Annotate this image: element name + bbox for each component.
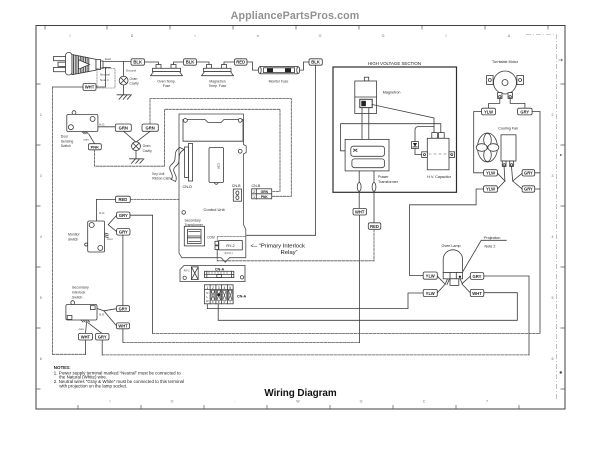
svg-text:N.O.: N.O. xyxy=(99,122,105,126)
ground tap wire xyxy=(123,62,125,77)
svg-text:W: W xyxy=(206,299,209,303)
svg-text:Door: Door xyxy=(61,135,69,139)
svg-text:Fuse: Fuse xyxy=(163,84,171,88)
oven temp fuse F1 xyxy=(151,65,183,76)
svg-text:WHT: WHT xyxy=(118,324,128,329)
wire: transformer primary leads xyxy=(359,171,374,223)
wire label WHT (interlock) xyxy=(117,323,130,329)
svg-text:O: O xyxy=(382,34,385,38)
wire label GRY (fan upper) xyxy=(522,170,535,176)
wire: fan YLW to oven lamp xyxy=(410,189,484,276)
wire: plug cord hot line xyxy=(103,60,131,62)
svg-text:W: W xyxy=(296,400,300,404)
wire label GRY (monitor 2) xyxy=(117,229,130,236)
svg-text:R: R xyxy=(224,301,226,304)
wire: cavity lamp to ground xyxy=(135,151,137,159)
svg-text:com: com xyxy=(107,237,113,241)
svg-text:GRY: GRY xyxy=(98,334,107,339)
svg-text:2: 2 xyxy=(212,286,214,290)
wire: gray bus (monitor to motors) xyxy=(153,332,540,334)
svg-text:lead: lead xyxy=(105,57,111,61)
svg-text:Oven: Oven xyxy=(130,77,138,81)
svg-text:C: C xyxy=(423,400,426,404)
svg-text:3: 3 xyxy=(552,174,554,178)
note 1 dashed box: Neutral Note 1 xyxy=(97,69,115,89)
svg-text:CN-A: CN-A xyxy=(237,294,247,298)
svg-text:N.O.: N.O. xyxy=(99,313,105,317)
wire label BLK (1) xyxy=(131,59,145,65)
svg-text:AppliancePartsPros.com: AppliancePartsPros.com xyxy=(231,10,360,22)
svg-text:GRN: GRN xyxy=(261,190,269,194)
wire: WHT to cord neutral xyxy=(96,68,105,87)
wire label GRN (1) xyxy=(115,124,131,131)
wire: left neutral rail xyxy=(52,87,54,354)
wire label RED (transformer) xyxy=(368,223,381,230)
wire: lamp GRY to gray bottom bus xyxy=(484,276,529,355)
svg-text:Relay”: Relay” xyxy=(280,250,297,256)
wire: com to PNK xyxy=(89,135,95,144)
svg-text:GRN: GRN xyxy=(119,125,128,130)
ground symbol (top) xyxy=(117,95,131,100)
wire: rail bottom run to WHT xyxy=(53,353,86,355)
wire: white bus (interlock to transformer) xyxy=(122,329,124,343)
svg-text:BLK: BLK xyxy=(186,60,195,65)
board mounting holes xyxy=(184,119,188,123)
key unit ribbon cable xyxy=(170,148,184,182)
oven cavity ground lamp symbol (circle-X) xyxy=(119,76,128,85)
svg-text:Magnetron: Magnetron xyxy=(383,90,401,94)
svg-text:Monitor Fuse: Monitor Fuse xyxy=(269,79,289,83)
svg-text:Cavity: Cavity xyxy=(143,149,153,153)
oven lamp LP1 xyxy=(443,250,462,286)
svg-text:YLW: YLW xyxy=(426,273,435,278)
svg-text:Temp. Fuse: Temp. Fuse xyxy=(209,84,227,88)
svg-text:5: 5 xyxy=(552,296,554,300)
svg-text:GRY: GRY xyxy=(119,230,128,235)
wire: interlock com diagonals xyxy=(86,323,102,334)
wire label GRY (monitor 1) xyxy=(117,212,130,218)
power relay board strip xyxy=(180,266,245,282)
svg-text:Oven Temp.: Oven Temp. xyxy=(157,79,175,83)
wire: fuse1 to BLK2 xyxy=(174,62,184,65)
wire: CN-A pin1 to lamp YLW xyxy=(207,293,423,309)
wire: GRY com stem and gray bottom bus xyxy=(101,340,103,355)
svg-text:O: O xyxy=(171,400,174,404)
wire: cavity to ground xyxy=(123,85,125,95)
svg-text:4: 4 xyxy=(40,235,42,239)
svg-text:YLW: YLW xyxy=(486,171,495,176)
wire: RED to monitor fuse xyxy=(247,62,259,70)
svg-text:Key Unit: Key Unit xyxy=(152,172,164,176)
svg-text:I: I xyxy=(70,34,71,38)
svg-text:4: 4 xyxy=(552,235,554,239)
oven cavity lamp symbol (circle-X) xyxy=(132,142,141,151)
wire label RED (monitor branch) xyxy=(116,196,131,202)
svg-text:H.V. Capacitor: H.V. Capacitor xyxy=(427,175,451,179)
relay sub-board edge xyxy=(217,237,246,258)
high voltage section box xyxy=(333,67,457,192)
wire label GRY (lamp) xyxy=(470,273,484,280)
wire: interlock N.O. diagonals xyxy=(97,309,117,326)
wire: RED to monitor switch xyxy=(96,199,115,220)
svg-text:PNK: PNK xyxy=(261,195,269,199)
svg-text:I: I xyxy=(446,34,447,38)
svg-text:RED: RED xyxy=(370,224,379,229)
wire label BLK (3) xyxy=(309,59,322,65)
cooling fan motor M2 xyxy=(476,133,516,167)
wire: monitor fuse to BLK3 xyxy=(300,62,309,70)
wire label YLW (lamp upper) xyxy=(423,272,437,279)
wire: BLK3 down to relay feed xyxy=(246,65,316,235)
connector CN-D xyxy=(185,144,193,182)
svg-text:RY-1: RY-1 xyxy=(184,268,190,272)
wire label GRY (interlock) xyxy=(117,306,130,312)
svg-text:BLK: BLK xyxy=(311,60,320,65)
wire label WHT (plug neutral) xyxy=(83,84,96,91)
svg-text:6: 6 xyxy=(552,357,554,361)
svg-text:com: com xyxy=(79,327,85,331)
notes text xyxy=(54,365,184,388)
wire: fan lead diagonals xyxy=(498,167,523,189)
svg-text:com: com xyxy=(84,138,90,142)
svg-text:CN-B: CN-B xyxy=(232,184,241,188)
svg-text:YLW: YLW xyxy=(426,291,435,296)
svg-text:Power: Power xyxy=(378,175,389,179)
wire: GRY2 down to interlock xyxy=(122,235,124,306)
ground symbol (mid) xyxy=(130,159,144,164)
svg-text:Switch: Switch xyxy=(68,237,78,241)
svg-text:4: 4 xyxy=(224,286,226,290)
svg-text:Ground: Ground xyxy=(126,68,137,72)
svg-text:Secondary: Secondary xyxy=(72,285,89,289)
relay RY-2 (primary interlock relay) xyxy=(215,241,242,250)
wire: diode bottom to capacitor tab xyxy=(415,149,422,155)
wire: lamp terminal diagonals xyxy=(437,276,470,293)
monitor fuse F3 xyxy=(258,67,299,74)
wire label YLW (lamp lower) xyxy=(423,289,437,296)
svg-text:BLK: BLK xyxy=(133,60,142,65)
wire: diode top to capacitor xyxy=(415,127,434,142)
wire: turntable GRY to gray bus xyxy=(532,112,540,334)
wire label GRY (interlock com) xyxy=(96,333,110,340)
svg-text:N: N xyxy=(206,291,208,295)
svg-text:Transformer: Transformer xyxy=(185,223,204,227)
svg-text:RED: RED xyxy=(236,60,245,65)
wire: fuse2 to RED xyxy=(224,62,235,65)
svg-text:PNK: PNK xyxy=(91,144,100,149)
svg-text:CN-D: CN-D xyxy=(183,185,193,189)
svg-text:2: 2 xyxy=(40,113,42,117)
relay RY-1 crossed box xyxy=(191,267,198,280)
diode D1 xyxy=(412,142,419,149)
wire: plug cord neutral line xyxy=(103,66,111,68)
wire: GRN route to CN-B pin2 xyxy=(150,99,291,197)
svg-text:Switch: Switch xyxy=(61,144,71,148)
wire: magnetron to capacitor xyxy=(372,105,434,133)
svg-text:HIGH VOLTAGE SECTION: HIGH VOLTAGE SECTION xyxy=(368,61,421,66)
svg-text:Turntable Motor: Turntable Motor xyxy=(492,60,519,64)
svg-text:RY-2: RY-2 xyxy=(226,244,234,248)
svg-text:GRY: GRY xyxy=(524,187,533,192)
svg-text:Secondary: Secondary xyxy=(185,219,202,223)
svg-text:Transformer: Transformer xyxy=(378,180,399,184)
svg-text:COM: COM xyxy=(207,236,215,240)
wire label YLW (turntable) xyxy=(482,108,496,115)
svg-text:e: e xyxy=(257,34,259,38)
wire: RED to line feed xyxy=(130,198,179,200)
svg-text:Interlock: Interlock xyxy=(72,290,85,294)
svg-text:(N.O.): (N.O.) xyxy=(225,251,233,255)
control unit board U1 outline xyxy=(179,114,246,262)
svg-text:GRN: GRN xyxy=(145,125,154,130)
turntable motor M1 xyxy=(487,71,524,98)
svg-text:WHT: WHT xyxy=(85,85,95,90)
wire: CN-A pin3 to lamp WHT xyxy=(218,293,517,321)
connector CN-A pin block xyxy=(204,285,233,304)
board display window xyxy=(183,120,243,142)
svg-text:Oven Lamp: Oven Lamp xyxy=(442,244,461,248)
wire: turntable YLW to fan YLW xyxy=(474,112,484,173)
svg-text:YLW: YLW xyxy=(484,109,493,114)
svg-text:5: 5 xyxy=(229,286,231,290)
svg-text:D: D xyxy=(131,34,134,38)
wire: magnetron filament leads xyxy=(362,108,369,163)
svg-text:N.O.: N.O. xyxy=(99,211,105,215)
wire: PNK route to CN-B pin1 xyxy=(95,109,280,191)
wire: GRN diagonals to cavity lamp xyxy=(124,131,151,142)
svg-text:3: 3 xyxy=(40,174,42,178)
svg-text:RED: RED xyxy=(118,197,127,202)
power plug P1 xyxy=(54,53,104,76)
wire label GRN (2) xyxy=(142,124,158,131)
svg-text:WHT: WHT xyxy=(355,210,365,215)
secondary transformer T2 xyxy=(184,226,204,246)
wire label GRY (fan lower) xyxy=(522,186,535,192)
svg-text:GRY: GRY xyxy=(520,109,529,114)
svg-text:Note 2: Note 2 xyxy=(485,244,496,248)
wire: projection leader xyxy=(460,240,506,276)
wire: GRY1 to gray bus xyxy=(130,215,153,333)
magnetron V1 xyxy=(355,77,377,113)
wire label RED (line) xyxy=(235,59,248,65)
svg-text:1: 1 xyxy=(206,286,208,290)
svg-text:Ribbon Cable: Ribbon Cable xyxy=(152,177,172,181)
svg-text:Cavity: Cavity xyxy=(130,82,140,86)
svg-text:7: 7 xyxy=(486,400,488,404)
wire label YLW (fan lower) xyxy=(484,186,498,192)
secondary interlock switch S2 xyxy=(66,301,97,322)
svg-text:WHT: WHT xyxy=(81,334,91,339)
svg-text:GRY: GRY xyxy=(119,213,128,218)
wire: WHT com stem xyxy=(85,340,87,354)
wire: door switch to GRN xyxy=(98,126,115,128)
svg-text:with projection on the lamp so: with projection on the lamp socket. xyxy=(59,383,127,388)
svg-text:Projection: Projection xyxy=(484,236,500,240)
wire: WHT to left rail xyxy=(53,86,83,88)
wire: monitor com diagonals to GRY xyxy=(108,215,116,231)
svg-text:¬: ¬ xyxy=(194,34,196,38)
svg-text:Monitor: Monitor xyxy=(68,232,81,236)
svg-text:<– “Primary Interlock: <– “Primary Interlock xyxy=(251,243,306,249)
wire: RED transformer to relay xyxy=(217,229,374,260)
svg-text:CN-B: CN-B xyxy=(252,184,261,188)
svg-text:Oven: Oven xyxy=(143,144,151,148)
wire label BLK (2) xyxy=(184,59,197,65)
svg-text:I: I xyxy=(110,400,111,404)
svg-text:WHT: WHT xyxy=(472,291,482,296)
transformer terminal ovals xyxy=(357,183,361,192)
wire: fan GRY to gray bus xyxy=(535,173,540,189)
svg-text:Wiring Diagram: Wiring Diagram xyxy=(264,388,336,399)
svg-text:Note 1: Note 1 xyxy=(100,78,109,82)
connector CN-A strip xyxy=(205,271,234,277)
wire label WHT (transformer) xyxy=(353,208,367,215)
svg-text:2: 2 xyxy=(253,190,255,194)
LSI chip xyxy=(209,148,224,185)
svg-text:2: 2 xyxy=(552,113,554,117)
monitor switch S3 xyxy=(85,221,109,252)
svg-text:Sensing: Sensing xyxy=(61,139,74,143)
magnetron temp fuse F2 xyxy=(202,65,234,76)
svg-text:O: O xyxy=(360,400,363,404)
svg-text:LSI: LSI xyxy=(217,163,221,168)
wire label WHT (interlock com) xyxy=(78,333,92,340)
svg-text:GRY: GRY xyxy=(473,274,482,279)
svg-text:GRY: GRY xyxy=(524,171,533,176)
wire: HV loop top xyxy=(341,124,441,151)
strip mounting holes xyxy=(183,276,186,279)
H.V. capacitor C1 xyxy=(422,133,455,170)
power transformer T1 xyxy=(345,139,389,171)
svg-text:5: 5 xyxy=(40,296,42,300)
door sensing switch S1 xyxy=(67,111,98,134)
svg-text:Cooling Fan: Cooling Fan xyxy=(498,126,518,130)
svg-text:Switch: Switch xyxy=(72,295,82,299)
svg-text:YLW: YLW xyxy=(486,187,495,192)
svg-text:3: 3 xyxy=(218,286,220,290)
svg-text:NOTES:: NOTES: xyxy=(54,365,71,370)
wire: BLK2 to magnetron temp fuse xyxy=(197,62,210,65)
wire label YLW (fan upper) xyxy=(484,170,498,176)
wire: turntable leads xyxy=(489,98,525,108)
svg-text:GRY: GRY xyxy=(119,306,128,311)
wire: BLK to oven temp fuse xyxy=(145,62,159,65)
svg-text:1: 1 xyxy=(253,195,255,199)
svg-text:O: O xyxy=(319,34,322,38)
wire label WHT (lamp) xyxy=(470,289,484,296)
wire label PNK xyxy=(88,144,101,150)
svg-text:6: 6 xyxy=(40,357,42,361)
wire label GRY (turntable) xyxy=(518,108,533,115)
svg-text:Control Unit: Control Unit xyxy=(204,207,226,212)
svg-text:Magnetron: Magnetron xyxy=(209,79,225,83)
